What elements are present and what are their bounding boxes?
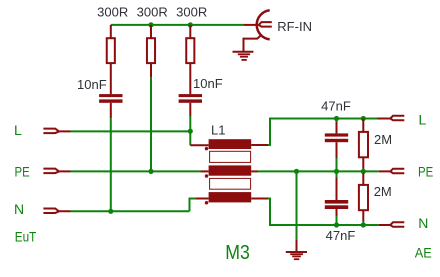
terminal L right — [378, 116, 405, 121]
ground RF-IN — [233, 52, 254, 60]
capacitor C2 — [179, 94, 202, 116]
connector RF-IN — [243, 10, 272, 52]
terminal PE left — [43, 169, 70, 174]
resistor R1 — [107, 25, 115, 94]
junction N-R5 — [361, 222, 366, 227]
junction R2-PE — [148, 169, 153, 174]
resistor R3 — [186, 25, 194, 94]
terminal L left — [43, 129, 70, 134]
svg-text:2M: 2M — [374, 184, 392, 199]
svg-text:10nF: 10nF — [193, 76, 223, 91]
svg-text:L: L — [419, 112, 427, 128]
wire L to L1 winding 1 — [189, 131, 191, 145]
junction C2-L — [188, 129, 193, 134]
capacitor C1 — [99, 94, 122, 118]
wire R2 to PE — [150, 77, 152, 171]
wire PE to ground — [296, 171, 298, 239]
ground PE — [286, 239, 307, 259]
svg-text:10nF: 10nF — [77, 77, 107, 92]
svg-text:PE: PE — [418, 164, 433, 180]
svg-text:47nF: 47nF — [326, 228, 356, 243]
svg-text:300R: 300R — [97, 4, 128, 19]
wire L1 winding1 to L right — [268, 119, 378, 146]
junction L-C3 — [334, 116, 339, 121]
svg-text:N: N — [14, 201, 24, 217]
junction L-R4 — [361, 116, 366, 121]
wire PE right — [258, 170, 379, 172]
svg-text:RF-IN: RF-IN — [277, 19, 312, 34]
wire C2 to L — [189, 116, 191, 131]
wire top RF rail — [111, 24, 243, 26]
svg-text:300R: 300R — [176, 4, 207, 19]
svg-text:L: L — [14, 122, 22, 138]
junction PE-R5 — [361, 169, 366, 174]
svg-text:2M: 2M — [374, 132, 392, 147]
wire L left — [71, 130, 191, 132]
svg-text:N: N — [418, 215, 428, 231]
svg-text:M3: M3 — [225, 242, 250, 264]
junction PE-C4 — [334, 169, 339, 174]
svg-text:47nF: 47nF — [321, 98, 351, 113]
junction rail-R3 — [188, 22, 193, 27]
junction PE-gnd — [294, 169, 299, 174]
wire C1 to N — [110, 118, 112, 211]
junction N-C4 — [334, 222, 339, 227]
svg-text:300R: 300R — [137, 4, 168, 19]
svg-text:AE: AE — [415, 244, 432, 260]
wire PE left — [71, 170, 201, 172]
svg-text:EuT: EuT — [15, 228, 37, 244]
resistor R2 — [147, 25, 155, 78]
terminal N left — [43, 209, 70, 214]
resistor R5 2M bottom — [359, 171, 368, 225]
terminal PE right — [379, 169, 405, 174]
wire N left — [71, 210, 190, 212]
junction rail-R2 — [148, 22, 153, 27]
wire N to L1 winding 3 — [190, 199, 197, 212]
junction C1-N — [108, 209, 113, 214]
capacitor C3 47nF top — [325, 119, 348, 172]
resistor R4 2M top — [359, 119, 368, 172]
svg-text:L1: L1 — [211, 122, 225, 137]
svg-text:PE: PE — [15, 163, 30, 179]
wire L1 winding3 to N right — [268, 199, 379, 226]
terminal N right — [379, 222, 405, 227]
capacitor C4 47nF bottom — [325, 171, 348, 225]
transformer L1 — [190, 139, 268, 204]
